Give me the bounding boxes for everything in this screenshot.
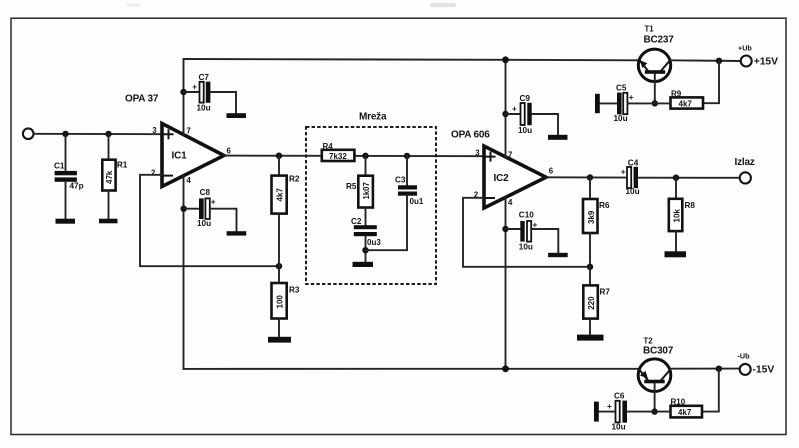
wire IC2 pin4 drop to -rail	[505, 197, 507, 369]
svg-text:10k: 10k	[672, 209, 681, 223]
Mreza network dashed box	[306, 112, 436, 285]
node C7 tap	[180, 89, 186, 95]
input terminal	[23, 128, 34, 139]
svg-text:OPA 606: OPA 606	[451, 130, 490, 141]
resistor R3	[272, 266, 300, 337]
svg-text:10u: 10u	[614, 114, 628, 123]
capacitor C2	[351, 217, 381, 262]
svg-text:0u1: 0u1	[410, 197, 424, 206]
ground below R8	[665, 251, 687, 257]
node R10 riser junction	[716, 366, 722, 372]
capacitor C10	[506, 211, 559, 253]
svg-text:4k7: 4k7	[679, 99, 693, 108]
svg-text:R1: R1	[117, 161, 128, 170]
resistor R6	[583, 178, 610, 267]
node R2/R3 junction	[276, 263, 282, 269]
svg-text:10u: 10u	[197, 219, 211, 228]
wire +rail top	[184, 59, 639, 60]
wire base junction to R9	[655, 102, 671, 104]
svg-text:C5: C5	[616, 84, 627, 93]
svg-text:6: 6	[549, 166, 554, 175]
svg-text:220: 220	[587, 296, 596, 310]
capacitor C8	[184, 188, 237, 231]
node R6 top tap	[587, 174, 593, 180]
svg-text:+: +	[607, 402, 612, 411]
node T1 base junction	[652, 100, 658, 106]
svg-text:Izlaz: Izlaz	[735, 157, 755, 168]
ground left of C6	[594, 402, 599, 422]
ground right of C9	[548, 135, 568, 140]
svg-text:R7: R7	[600, 288, 611, 297]
capacitor C6	[599, 392, 655, 432]
svg-text:4k7: 4k7	[275, 188, 284, 202]
svg-text:R4: R4	[323, 142, 334, 151]
ground left of C5	[595, 94, 600, 113]
wire IC1 output	[224, 155, 484, 158]
svg-text:C1: C1	[54, 162, 65, 171]
wire IC2 output to C4	[546, 176, 627, 178]
svg-text:7: 7	[508, 151, 512, 160]
svg-text:100: 100	[275, 295, 284, 309]
wire -rail bottom	[184, 368, 639, 370]
wire base junction to R10	[655, 411, 671, 413]
svg-text:0u3: 0u3	[367, 238, 381, 247]
wire T1 collector to +15V terminal	[671, 59, 741, 62]
node T2 base junction	[651, 408, 657, 414]
wire IC2 pin2 feedback loop	[463, 198, 590, 267]
svg-text:R10: R10	[671, 397, 686, 406]
wire IC1 pin4 drop to -rail	[183, 176, 185, 369]
svg-text:BC307: BC307	[643, 346, 674, 357]
svg-text:1k07: 1k07	[362, 182, 371, 199]
node R6/R7 junction	[587, 264, 593, 270]
ground right of C7	[227, 113, 247, 118]
svg-text:C3: C3	[395, 176, 406, 185]
svg-text:R5: R5	[346, 182, 357, 191]
node C1 tap	[62, 131, 68, 137]
resistor R9	[671, 89, 704, 108]
svg-text:3: 3	[475, 149, 480, 158]
svg-text:+: +	[192, 82, 197, 91]
capacitor C7	[184, 73, 237, 113]
resistor R7	[583, 267, 610, 335]
ground right of C8	[227, 231, 247, 235]
svg-text:3k9: 3k9	[587, 210, 596, 224]
svg-text:+: +	[621, 167, 626, 176]
svg-text:R6: R6	[599, 201, 610, 210]
output terminal Izlaz	[735, 157, 755, 184]
node C3 tap	[404, 153, 410, 159]
svg-text:C10: C10	[519, 211, 534, 220]
svg-text:10u: 10u	[612, 423, 626, 432]
wire R10 riser	[702, 369, 719, 412]
svg-text:C9: C9	[520, 94, 531, 103]
svg-text:+: +	[629, 93, 634, 102]
svg-text:47k: 47k	[105, 170, 114, 184]
node top rail / pin7 junction	[502, 56, 509, 63]
transistor T2 BC307	[638, 337, 674, 412]
capacitor C5	[600, 84, 655, 124]
node C2/C3 ground junction	[362, 247, 368, 253]
wire IC1 pin2 feedback loop	[140, 175, 279, 266]
-15V terminal	[738, 352, 775, 376]
ground below R7	[577, 335, 604, 341]
ground below R1	[99, 219, 118, 224]
svg-text:7k32: 7k32	[329, 152, 347, 161]
svg-text:+: +	[512, 105, 517, 114]
svg-text:R9: R9	[671, 89, 682, 98]
resistor R2	[272, 156, 300, 267]
op-amp IC2	[474, 146, 554, 208]
svg-text:IC1: IC1	[172, 151, 188, 162]
wire IC1 pin7 riser to +rail	[183, 59, 185, 135]
svg-text:-Ub: -Ub	[738, 352, 751, 361]
svg-text:C6: C6	[614, 392, 625, 401]
op-amp IC1	[151, 124, 232, 187]
ground below R3	[268, 337, 291, 343]
svg-text:10u: 10u	[197, 104, 211, 113]
svg-text:3: 3	[152, 126, 157, 135]
node R2 top tap	[276, 153, 282, 159]
svg-text:BC237: BC237	[644, 35, 675, 46]
node R5 tap	[362, 153, 368, 159]
svg-text:R3: R3	[289, 286, 300, 295]
node C8 tap	[181, 206, 187, 212]
wire IC2 pin7 riser to +rail	[505, 60, 507, 157]
node C9 tap	[502, 111, 508, 117]
wire C4 to output terminal	[638, 177, 739, 179]
node R8 tap	[673, 175, 679, 181]
resistor R4	[322, 142, 355, 161]
node R1 tap	[105, 131, 111, 137]
svg-text:47p: 47p	[70, 182, 84, 191]
svg-text:4: 4	[187, 176, 192, 185]
svg-text:-15V: -15V	[753, 365, 775, 376]
wire input to IC1 pin3	[34, 133, 162, 135]
wire T2 collector to -15V terminal	[671, 368, 740, 370]
svg-text:T1: T1	[645, 25, 655, 34]
svg-text:C8: C8	[200, 188, 211, 197]
+15V terminal	[738, 44, 778, 68]
transistor T1 BC237	[638, 25, 674, 104]
svg-text:Mreža: Mreža	[359, 112, 387, 123]
svg-text:C2: C2	[351, 217, 362, 226]
svg-text:C4: C4	[628, 158, 639, 167]
node R9 riser junction	[716, 58, 722, 64]
svg-text:7: 7	[187, 127, 191, 136]
svg-text:T2: T2	[644, 337, 654, 346]
svg-text:6: 6	[227, 146, 232, 155]
resistor R1	[102, 134, 128, 219]
svg-text:R2: R2	[289, 175, 300, 184]
svg-text:4k7: 4k7	[678, 408, 692, 417]
capacitor C3	[366, 156, 424, 250]
svg-text:+: +	[211, 198, 216, 207]
node C10 tap	[502, 226, 508, 232]
svg-text:10u: 10u	[518, 126, 532, 135]
svg-text:C7: C7	[199, 73, 210, 82]
svg-text:+Ub: +Ub	[738, 44, 752, 53]
svg-text:10u: 10u	[519, 242, 533, 251]
svg-text:2: 2	[151, 169, 156, 178]
svg-text:R8: R8	[685, 201, 696, 210]
resistor R10	[671, 397, 703, 417]
svg-text:4: 4	[508, 198, 513, 207]
svg-text:IC2: IC2	[494, 173, 510, 184]
svg-text:+: +	[533, 220, 538, 229]
ground below C2	[353, 262, 374, 267]
svg-text:+15V: +15V	[754, 57, 778, 68]
ground right of C10	[548, 253, 568, 257]
svg-text:OPA 37: OPA 37	[125, 94, 159, 105]
capacitor C4	[621, 158, 640, 196]
capacitor C1	[54, 134, 84, 219]
resistor R8	[669, 178, 696, 252]
node bottom rail / pin4 junction	[502, 365, 509, 372]
capacitor C9	[506, 94, 559, 135]
resistor R5	[346, 156, 373, 225]
svg-text:10u: 10u	[626, 187, 640, 196]
wire R9 riser	[703, 61, 719, 103]
ground below C1	[56, 219, 76, 224]
